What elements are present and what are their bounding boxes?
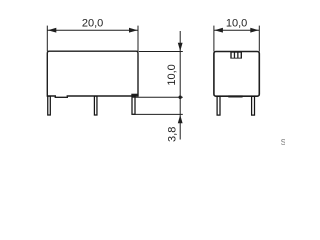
svg-text:10,0: 10,0: [166, 64, 178, 85]
dimension 3,8: up arrowhead below pin-bottom line: [178, 115, 183, 123]
dimension 10,0 width: dimension line: [214, 29, 259, 31]
vent detail on end view top edge: [230, 52, 242, 59]
end view right pin: [252, 96, 255, 115]
pin 1 (left, side view): [48, 96, 51, 115]
dimension 10,0 width: left arrowhead: [214, 28, 223, 33]
end view left pin: [217, 96, 220, 115]
svg-text:20,0: 20,0: [82, 18, 103, 30]
dimension 10,0 height: top extension line from body top edge: [139, 51, 183, 53]
vertical dimension line at x=180 (shared by 10,0 and 3,8): [179, 31, 181, 140]
dimension 20,0: left extension line: [46, 26, 48, 52]
shared extension line at body bottom (y=97.2): [132, 96, 183, 98]
pin 3 (right, side view): [132, 96, 135, 114]
black corner tab on side view bottom right: [131, 94, 138, 97]
svg-text:3,8: 3,8: [166, 127, 178, 142]
dimension 10,0 width: left extension line: [213, 26, 215, 52]
relay body end view outline: [214, 52, 259, 97]
dimension 10,0 width: right arrowhead: [250, 28, 258, 33]
pin 2 (middle, side view): [94, 96, 97, 115]
svg-text:10,0: 10,0: [226, 18, 247, 30]
dimension 20,0: left arrowhead: [48, 28, 57, 33]
dimension 10,0 height: down arrowhead at top: [178, 43, 183, 51]
dimension 20,0: right extension line: [137, 26, 139, 52]
dimension 20,0: dimension line: [47, 29, 138, 31]
dimension 10,0 width: right extension line: [258, 26, 260, 52]
dimension 20,0: right arrowhead: [129, 28, 138, 33]
extension line at pin bottom (y=114.4): [133, 113, 183, 115]
dot terminator at body bottom on dimension line: [179, 96, 182, 99]
black tab at end view bottom center: [228, 95, 242, 97]
relay body side view outline: [47, 51, 138, 97]
svg-text:s: s: [281, 136, 285, 148]
